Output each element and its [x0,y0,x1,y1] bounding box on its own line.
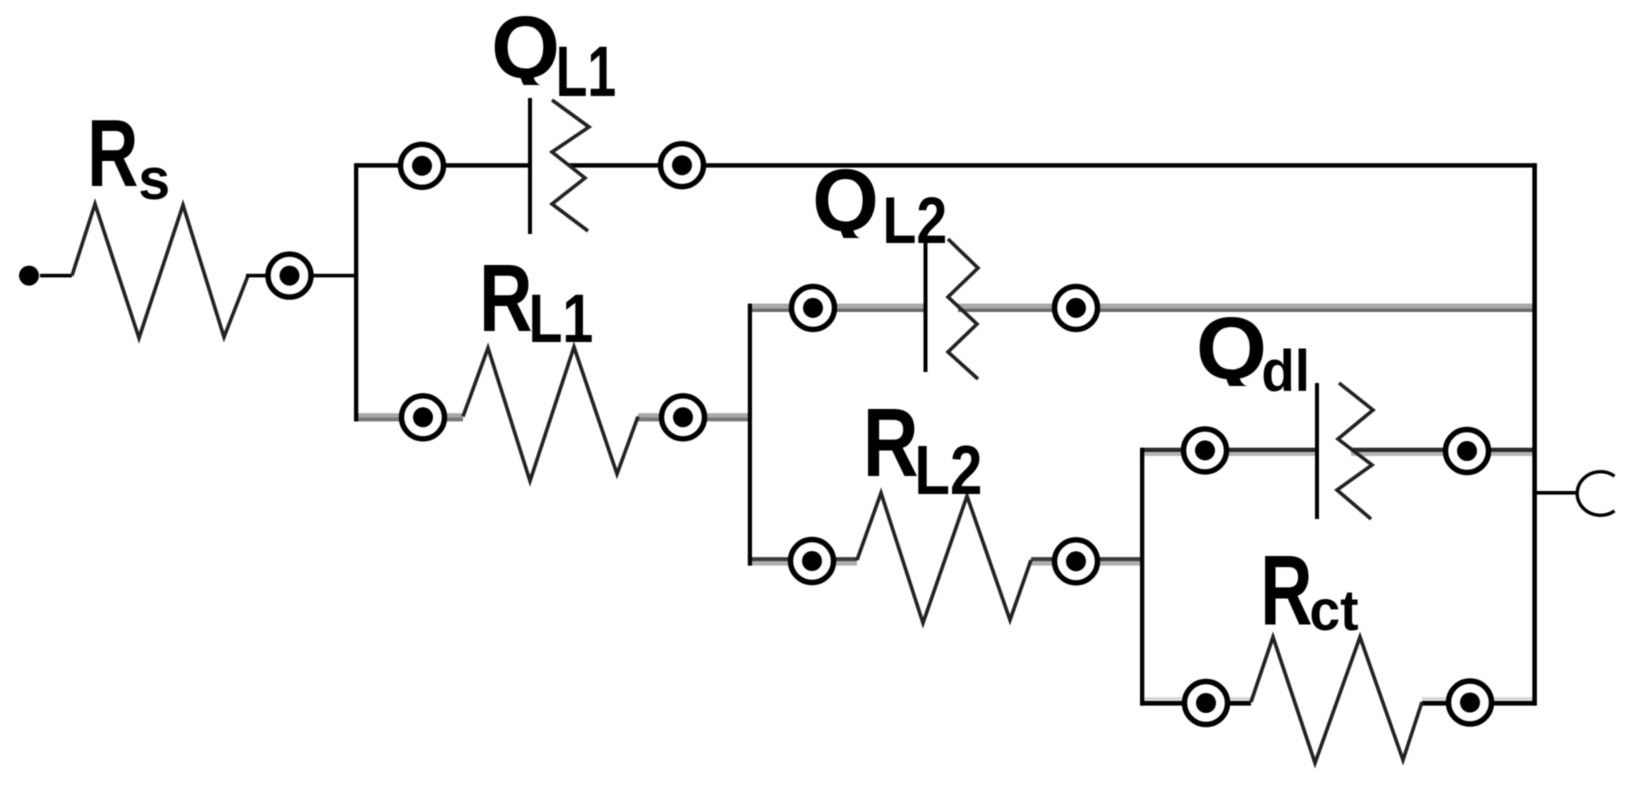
svg-text:R: R [1260,536,1312,646]
wire QL2 branch right to rail (two-tone) [958,304,1536,309]
resistor Rct [1251,637,1422,763]
svg-text:R: R [863,389,919,498]
label RL2 [863,389,919,498]
output terminal lead wire [1536,491,1578,495]
svg-text:L2: L2 [914,431,982,509]
input terminal dot [19,266,39,286]
wire Rct branch left (two-tone) [1142,697,1251,701]
svg-text:s: s [138,148,170,212]
wire Rs to node [246,274,272,278]
wire Qdl branch left (two-tone) [1142,448,1318,452]
node Qdl right [1446,430,1489,473]
wire RL2 branch left (two-tone) [750,557,857,561]
node QL2 right [1055,286,1098,329]
CPE Qdl plate [1315,383,1319,519]
CPE QL1 zigzag [552,100,589,231]
wire Rct branch right (two-tone) [1422,697,1536,701]
wire Qdl branch right to rail (two-tone) [1351,448,1536,452]
wire node to left vertical [306,274,358,278]
CPE QL1 plate [528,98,532,234]
label RL1 [479,246,532,352]
svg-text:R: R [479,246,532,352]
node RL1 right [662,396,705,439]
resistor RL1 [463,347,638,481]
middle vertical wire (split 2) [748,304,752,566]
wire QL2 branch left (two-tone) [750,304,926,309]
wire top branch QL1 left [356,163,530,167]
node RL2 right [1055,540,1098,583]
wire input lead to Rs [40,274,72,278]
right vertical wire (split 3) [1140,448,1144,706]
node Rct right [1449,681,1492,724]
node Qdl left [1184,429,1227,472]
label QL2 [812,152,879,250]
resistor Rs [72,204,248,338]
label Rct [1260,536,1312,646]
CPE Qdl zigzag [1337,383,1373,519]
node QL1 left [401,144,444,187]
node QL1 right [661,144,704,187]
wire RL2 branch right (two-tone) [1031,557,1144,561]
label QL1 [491,0,560,97]
left vertical wire (split 1) [354,163,358,421]
output terminal C [1577,472,1614,516]
svg-text:ct: ct [1309,578,1358,642]
svg-text:Q: Q [1196,300,1267,398]
node RL1 left [402,396,445,439]
svg-text:L2: L2 [883,184,948,257]
wire top branch QL1 right to rail [569,163,1537,167]
resistor RL2 [857,493,1031,623]
svg-text:Q: Q [491,0,560,97]
label Rs [87,100,138,207]
svg-text:dl: dl [1261,338,1310,403]
svg-text:L1: L1 [556,33,616,112]
svg-text:R: R [87,100,138,207]
label Qdl [1196,300,1267,398]
CPE QL2 plate [924,240,928,372]
wire RL1 branch left (two-tone) [356,413,463,417]
node after Rs [268,254,311,297]
right rail wire [1532,163,1537,705]
node RL2 left [791,540,834,583]
svg-text:Q: Q [812,152,879,250]
svg-text:L1: L1 [529,282,594,358]
wire RL1 branch right (two-tone) [638,413,752,417]
node Rct left [1185,682,1228,725]
node QL2 left [792,286,835,329]
CPE QL2 zigzag [948,239,978,379]
